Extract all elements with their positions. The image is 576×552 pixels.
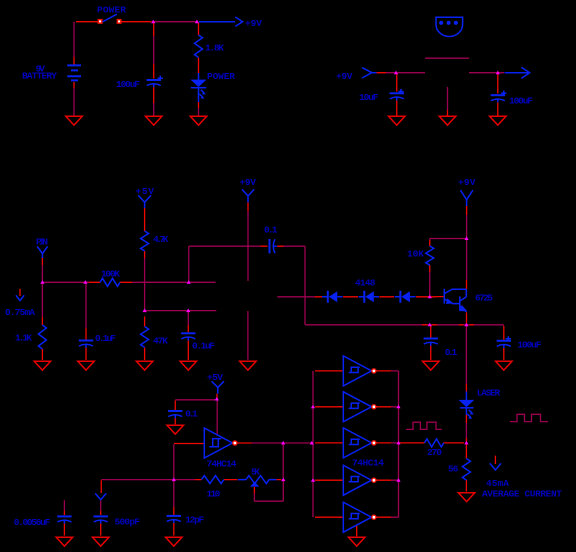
svg-text:0.1uF: 0.1uF: [192, 341, 215, 352]
svg-text:0.0056uF: 0.0056uF: [14, 517, 51, 528]
svg-text:74HC14: 74HC14: [352, 458, 384, 469]
svg-text:270: 270: [427, 447, 442, 458]
svg-text:47K: 47K: [153, 336, 168, 347]
svg-text:+9V: +9V: [458, 177, 476, 188]
svg-text:4148: 4148: [355, 277, 376, 288]
svg-text:POWER: POWER: [97, 4, 126, 15]
svg-text:+9V: +9V: [245, 18, 262, 29]
svg-text:0.75mA: 0.75mA: [5, 307, 35, 318]
svg-text:10uF: 10uF: [359, 92, 379, 103]
svg-text:100uF: 100uF: [116, 79, 140, 90]
svg-text:10K: 10K: [407, 249, 424, 260]
svg-text:100uF: 100uF: [517, 340, 541, 351]
svg-text:45mA: 45mA: [486, 478, 509, 489]
svg-text:100K: 100K: [101, 268, 120, 279]
svg-text:0.1: 0.1: [185, 408, 198, 419]
svg-text:LASER: LASER: [477, 387, 501, 398]
svg-text:1.1K: 1.1K: [15, 332, 32, 343]
svg-text:6725: 6725: [475, 293, 493, 304]
svg-text:BATTERY: BATTERY: [22, 71, 57, 82]
svg-text:+9V: +9V: [240, 177, 257, 188]
svg-text:56: 56: [448, 463, 459, 474]
svg-text:+9V: +9V: [336, 71, 353, 82]
svg-text:0.1: 0.1: [445, 347, 458, 358]
svg-text:4.7K: 4.7K: [153, 234, 169, 245]
svg-text:74HC14: 74HC14: [207, 458, 237, 469]
svg-text:PIN: PIN: [36, 237, 48, 248]
svg-text:5K: 5K: [251, 466, 260, 477]
svg-text:AVERAGE CURRENT: AVERAGE CURRENT: [482, 489, 562, 500]
svg-text:+5V: +5V: [207, 372, 223, 383]
svg-text:1.8K: 1.8K: [205, 43, 224, 54]
svg-text:POWER: POWER: [207, 71, 235, 82]
svg-text:0.1uF: 0.1uF: [95, 333, 116, 344]
svg-text:500pF: 500pF: [115, 517, 141, 528]
svg-text:0.1: 0.1: [264, 225, 278, 236]
svg-text:110: 110: [207, 488, 221, 499]
svg-text:+5V: +5V: [136, 186, 155, 197]
svg-text:12pF: 12pF: [185, 514, 204, 525]
svg-text:100uF: 100uF: [509, 95, 533, 106]
